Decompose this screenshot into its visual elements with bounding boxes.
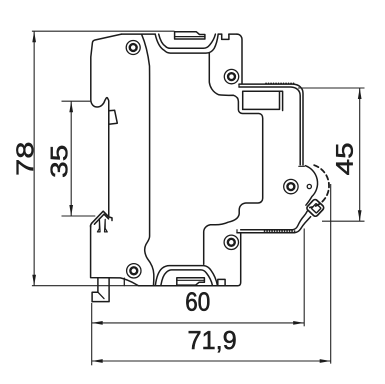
arrow 78 top [32, 31, 36, 42]
bottom step left cap [237, 230, 241, 233]
label 60 [186, 292, 209, 311]
screw D bottom-middle [224, 235, 238, 249]
serration on top step [266, 82, 295, 84]
top terminal step: inner line with corner, wall inner vertical [239, 87, 300, 165]
arrow 71,9 right [320, 359, 331, 363]
bottom cable arch inner [161, 270, 213, 285]
dim 60 right extension [303, 229, 305, 327]
wire: body top edge [122, 33, 156, 35]
DIN bottom clip chevron inner [94, 214, 108, 224]
top small rect right of toggle recess [222, 34, 229, 39]
arrow 45 top [358, 88, 362, 99]
DIN top clip tab [109, 110, 118, 124]
release diamond inner [311, 203, 321, 213]
label 45 [336, 144, 353, 175]
arrow 78 bottom [32, 275, 36, 286]
wire: lower right edge, bottom edge, bottom-left edge [91, 225, 241, 285]
top terminal step: outer (top) line with right corner, wall outer vertical [239, 84, 303, 165]
bottom spring clip below body [92, 278, 109, 302]
dim 78 extension bottom [32, 285, 138, 287]
bottom tab mid line [177, 279, 205, 281]
top step left end cap [238, 84, 240, 87]
dim 60 line [92, 322, 305, 324]
release diamond outer [306, 198, 325, 217]
dim 35 extension top [62, 100, 91, 102]
screw A top-left [126, 41, 140, 55]
serration on bottom step [265, 230, 297, 232]
label 78 [16, 143, 33, 175]
bottom tab under arch [177, 278, 205, 285]
DIN bottom clip foot [97, 219, 107, 232]
dim 35 extension bottom [62, 215, 96, 217]
pivot small circle [307, 184, 311, 188]
label 35 [51, 146, 68, 177]
terminal opening rectangle (top) [243, 91, 283, 110]
wire: cam outline solid arc [305, 166, 317, 206]
wire: toggle recess outer arc [155, 34, 218, 53]
dim 78 extension top [32, 30, 175, 32]
dim 45 extension top [298, 87, 365, 89]
DIN bottom clip chevron outer [92, 211, 109, 223]
arrow 35 top [69, 101, 73, 112]
wire: top-right corner and right edge [237, 34, 242, 84]
dim 71,9 line [92, 360, 331, 362]
arrow 45 bottom [358, 210, 362, 221]
arrow 60 left [92, 321, 103, 325]
wire: body outline upper-left lobe (back of housing) [91, 34, 122, 220]
dim 35 line [70, 101, 72, 216]
label 71,9 [189, 331, 236, 352]
bottom clip diagonal [98, 292, 104, 298]
dim 60/71,9 left extension [91, 303, 93, 365]
toggle handle tab [175, 32, 205, 39]
DIN clip left edge bend [91, 223, 92, 227]
dashed swing arc of cam [310, 165, 329, 207]
wire: toggle recess inner arc [159, 34, 216, 48]
dim 45 extension bottom [322, 220, 365, 222]
arrow 60 right [293, 321, 304, 325]
bottom terminal step: lower line joining diamond lower-left edge [237, 217, 311, 233]
internal front edge of housing [142, 34, 154, 285]
screw B top-right [224, 69, 238, 83]
bottom terminal step: upper line joining cam outline below diamond [241, 211, 308, 230]
screw C right-middle [284, 179, 298, 193]
wire: front contour from toggle area down to middle recess [204, 53, 263, 264]
screw E bottom-left [127, 264, 141, 278]
bottom cable arch outer [155, 266, 217, 286]
dim 45 line [359, 88, 361, 221]
top step wall foot [299, 165, 305, 167]
bottom small rect right of arch [218, 279, 225, 285]
clip housing tick [123, 278, 125, 285]
arrow 35 bottom [69, 205, 73, 216]
arrow 71,9 left [92, 359, 103, 363]
dim 78 line [33, 31, 35, 286]
dim 71,9 right extension [330, 184, 332, 364]
